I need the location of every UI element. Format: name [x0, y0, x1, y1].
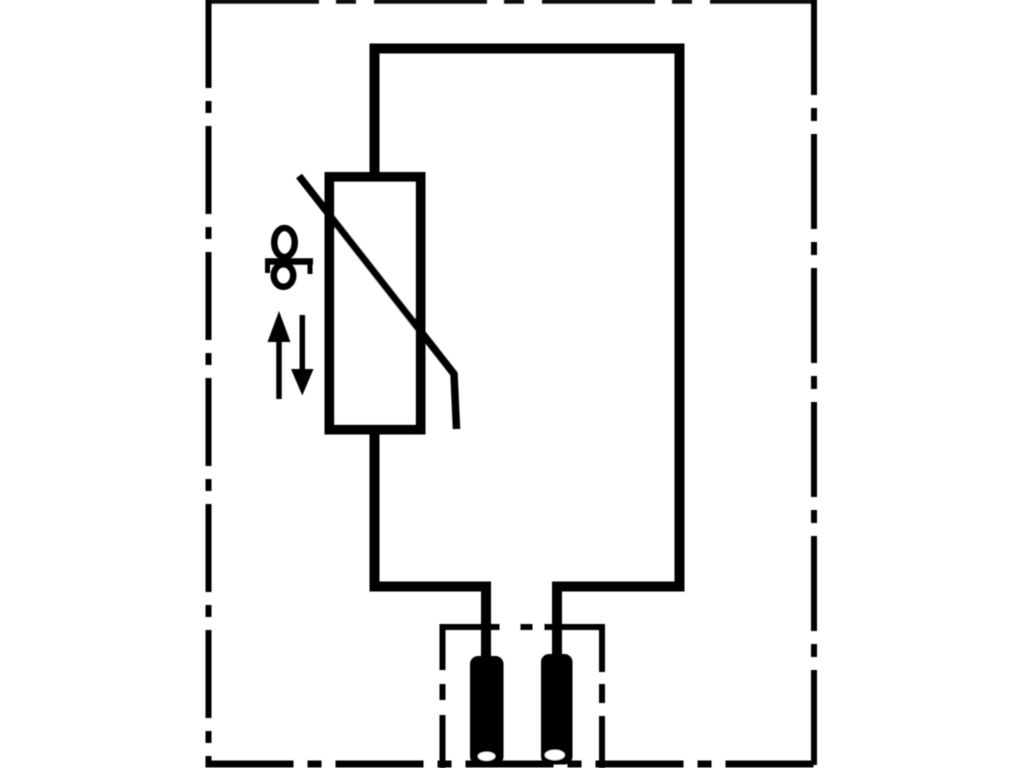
thermistor variability diagonal stroke: [299, 176, 457, 429]
temperature symbol theta: lower loop: [274, 264, 294, 287]
enclosure boundary left (dash-dot): [206, 0, 212, 766]
arrow down: head: [291, 369, 314, 396]
enclosure boundary top (dash-dot): [206, 0, 817, 4]
temperature symbol theta: crossbar: [265, 258, 313, 265]
temperature symbol theta: right serif tick: [308, 262, 313, 275]
thermistor R body (rectangle): [330, 177, 421, 430]
pin 1 terminal hole (white ellipse): [478, 752, 495, 761]
arrow up: head: [268, 311, 291, 342]
pin 2 terminal hole (white ellipse): [545, 750, 565, 760]
connector housing dashed box: top: [440, 624, 606, 630]
connector housing dashed box: left: [440, 624, 446, 768]
wire: loop top + right side (from thermistor top to pin 2 branch): [375, 49, 680, 659]
connector housing dashed box: right: [599, 624, 605, 768]
wire: thermistor bottom to pin 1: [375, 429, 487, 660]
enclosure boundary right (dash-dot): [811, 0, 817, 766]
temperature symbol theta: left serif tick: [265, 262, 270, 274]
pin 2 (right connector pin): [541, 654, 573, 765]
enclosure boundary bottom (dash-dot): [206, 761, 818, 768]
temperature symbol theta: upper loop: [274, 228, 295, 257]
pin 1 (left connector pin): [470, 656, 504, 765]
arrow down: shaft: [300, 315, 306, 374]
arrow up: shaft: [276, 334, 282, 399]
